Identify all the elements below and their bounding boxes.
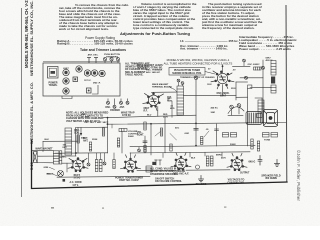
right data table (239, 35, 297, 51)
svg-text:BUS: BUS (168, 101, 173, 103)
2nd IF can label (271, 77, 275, 84)
tone capacitor C21 (271, 133, 278, 138)
wire: detector bus (137, 169, 176, 171)
oscillator coil L2 (65, 128, 72, 155)
svg-text:Power output . . . . . . . .: Power output . . . . . . . . . . 2.25 wa… (239, 47, 291, 51)
chassis ground symbol (198, 176, 203, 182)
svg-text:AVC: AVC (175, 127, 180, 130)
svg-text:TRIMMERS: TRIMMERS (106, 56, 118, 58)
resistor R3 (117, 138, 119, 147)
svg-text:SHOWN IN MANUAL POS.: SHOWN IN MANUAL POS. (172, 72, 202, 75)
svg-text:TERMINAL BOARD: TERMINAL BOARD (152, 85, 172, 88)
svg-text:250M: 250M (92, 139, 97, 141)
trimmer C2 (87, 153, 90, 166)
svg-text:type connected in the output p: type connected in the output plate circu… (133, 26, 194, 30)
loop antenna (wave magnet) (33, 151, 37, 162)
svg-text:WESTINGHOUSE EL. SUPPLY CO., I: WESTINGHOUSE EL. SUPPLY CO., INC. (29, 1, 34, 76)
oscillator padder trimmers below chassis (107, 99, 123, 109)
dial drive line (92, 85, 98, 94)
ext antenna stub (80, 127, 82, 133)
padder trimmer (245, 76, 248, 79)
svg-text:8MFD: 8MFD (216, 155, 222, 157)
svg-text:2ND I.F.: 2ND I.F. (93, 82, 101, 84)
resistor R6 (113, 160, 115, 169)
svg-text:PART NO. V-8237: PART NO. V-8237 (119, 179, 139, 182)
left page rule (21, 8, 23, 197)
loudspeaker (264, 110, 278, 127)
wire: b+ vertical right (262, 60, 264, 123)
svg-text:TABLE ABOVE.: TABLE ABOVE. (125, 74, 144, 77)
2nd if trimmer screws (228, 104, 244, 116)
svg-text:©John F. Rider, Publisher: ©John F. Rider, Publisher (296, 150, 301, 202)
svg-text:A.C. CORD: A.C. CORD (70, 181, 82, 184)
tube socket 6SK7 IF (top view) (84, 70, 90, 76)
wire: gang frame vertical (77, 127, 79, 152)
wire: loop lead upper (32, 150, 54, 152)
wire: vertical screen (235, 82, 237, 100)
wire: audio feed vertical (164, 118, 166, 153)
wire: avc bus (130, 146, 255, 147)
svg-text:BLK: BLK (191, 158, 196, 160)
svg-text:BLK: BLK (45, 139, 50, 141)
svg-text:ON VOLUME CONTROL: ON VOLUME CONTROL (155, 180, 182, 183)
2nd IF transformer T3 primary (271, 61, 276, 76)
svg-text:Adjustments for Push-Button Tu: Adjustments for Push-Button Tuning (120, 31, 190, 36)
svg-text:OSC. 600KC: OSC. 600KC (248, 64, 261, 66)
wire: converter plate drop (222, 85, 224, 96)
svg-text:WAVE MAGNET: WAVE MAGNET (35, 147, 53, 150)
tube socket 6SA7 (top view) (76, 66, 82, 72)
resistor R4 (144, 122, 146, 130)
coupling box C13 (223, 133, 229, 138)
wire: vertical diode load (216, 124, 218, 146)
tube socket 6SK7 RF (top view) (63, 69, 69, 75)
resistor R14 (251, 139, 253, 149)
svg-text:.0001: .0001 (184, 133, 190, 135)
svg-text:5Y3-G: 5Y3-G (74, 178, 81, 180)
wire: loop to gang (43, 140, 78, 142)
junction lamp (63, 179, 66, 182)
tube socket 5Y3 (top view) (63, 78, 69, 84)
wire: cathode bus (57, 175, 150, 178)
wire: screen feed (236, 96, 248, 98)
antenna coil L1 primary (53, 151, 59, 164)
wire: vertical b+ riser (247, 89, 249, 147)
svg-text:ANT.: ANT. (119, 106, 124, 109)
svg-text:I.F. AMP: I.F. AMP (81, 116, 90, 119)
wire: vertical at gang (107, 118, 109, 153)
svg-text:250V: 250V (163, 117, 168, 119)
svg-text:PILOT: PILOT (47, 174, 54, 176)
trimmer C3 (103, 153, 106, 165)
resistor R15 (257, 141, 259, 151)
capacitor C18 (258, 156, 262, 166)
wire: terminal drop (171, 101, 173, 117)
small stub (111, 124, 113, 128)
stub wires on cathode bus (163, 152, 222, 157)
note text right of chassis (125, 63, 150, 77)
svg-text:TONE: TONE (264, 140, 271, 142)
svg-text:6K6-G: 6K6-G (249, 162, 256, 164)
wave trap trimmer stems (88, 58, 90, 64)
svg-text:BLU: BLU (147, 115, 152, 117)
svg-text:MFD: MFD (170, 108, 175, 110)
svg-text:ANT.: ANT. (83, 140, 88, 143)
svg-text:WAVE MAGNET: WAVE MAGNET (152, 83, 169, 86)
capacitor C9 (143, 141, 147, 143)
electrolytic C15 (206, 156, 209, 166)
converter tube V1 6SA7 (211, 71, 234, 89)
wire: plate feed (240, 77, 263, 79)
svg-text:ANT. OSC.: ANT. OSC. (88, 54, 99, 57)
wire: output bus (186, 169, 230, 171)
power transformer T1 primary (95, 160, 98, 172)
chassis bottom notch (62, 96, 72, 99)
svg-text:100V: 100V (207, 84, 212, 86)
svg-text:Rating B . . . . . . . . . .: Rating B . . . . . . . . . . . . . . 105… (57, 42, 133, 46)
push-button switch label box (169, 68, 205, 76)
note text block (66, 112, 108, 123)
svg-text:50M: 50M (81, 138, 85, 140)
resistor R12 (170, 144, 172, 151)
wave magnet note (137, 64, 163, 70)
svg-text:500M: 500M (128, 136, 134, 138)
power transformer T1 secondary (99, 160, 102, 172)
svg-text:work or for circuit alignment: work or for circuit alignment tests. (58, 27, 109, 31)
if output coil L4 (258, 100, 264, 112)
resistor R8 (horizontal) (254, 67, 262, 70)
svg-text:AVC: AVC (168, 97, 173, 100)
wire: heater top (233, 65, 251, 67)
output transformer T4 (246, 112, 262, 125)
electrolytic can (top view) (63, 88, 69, 94)
wire: lower left bus (38, 155, 76, 157)
svg-text:450 OHMS: 450 OHMS (265, 177, 277, 180)
svg-text:OSC.: OSC. (105, 107, 111, 109)
terminal box (248, 85, 252, 89)
capacitor C14 (215, 129, 219, 131)
speaker plug pins (155, 160, 162, 165)
svg-text:Ant. trimmer - - - - - - - -: Ant. trimmer - - - - - - - - - 1400 kc. (180, 46, 228, 50)
antenna trimmer screws (103, 58, 119, 63)
trimmer C22 (138, 147, 141, 152)
resistor R7 (77, 135, 79, 143)
svg-text:R.F.: R.F. (144, 110, 148, 112)
svg-text:the frequency of the desired s: the frequency of the desired station. (202, 26, 255, 30)
wire: cathode return bus (130, 152, 250, 153)
det avc tube V3 6SQ7 (171, 153, 191, 171)
wire: vertical if plate (195, 80, 197, 147)
svg-text:30M: 30M (211, 112, 215, 114)
wire: ant coil bus (55, 152, 108, 154)
top text column 1 (58, 3, 129, 31)
power transformer box (top view) (48, 67, 59, 79)
tube socket 6SQ7 (top view) (91, 70, 97, 76)
chassis outline (43, 63, 120, 96)
svg-text:I.F. —————————————— 455 kc.: I.F. —————————————— 455 kc. (180, 39, 239, 43)
coupling box R13 (231, 133, 237, 138)
stray page marks (51, 207, 226, 209)
values note block (150, 168, 185, 176)
schematic frame left and bottom (32, 140, 288, 189)
svg-text:PADDER: PADDER (110, 109, 120, 112)
capacitor C12 (257, 114, 263, 118)
bottom tube V5 5Y3 rect (68, 157, 88, 172)
wire: rf plate bus (103, 115, 196, 118)
svg-text:500M: 500M (230, 144, 236, 146)
wire: antenna top bus (76, 127, 108, 156)
rf amp tube V6 6SK7 (143, 93, 164, 111)
capacitor C8 (194, 128, 198, 130)
osc trimmer C6 (194, 76, 197, 79)
svg-text:117 V.: 117 V. (72, 185, 79, 187)
converter pin labels (207, 69, 236, 91)
svg-text:6SA7: 6SA7 (220, 95, 227, 98)
output tube V4 6K6 (227, 153, 247, 171)
ground symbol right (274, 160, 279, 167)
svg-text:OSC. SECT.: OSC. SECT. (84, 122, 97, 124)
svg-text:WESTINGHOUSE EL. & MFG. CO.: WESTINGHOUSE EL. & MFG. CO. (29, 82, 34, 144)
antenna coil L1 secondary (59, 151, 61, 164)
svg-text:OUTPUT: OUTPUT (240, 173, 250, 175)
electrolytic C16 (210, 156, 213, 166)
resistor R10 (201, 137, 203, 145)
small can C30 (146, 166, 152, 172)
transformer stubs (97, 153, 131, 160)
if transformer can (top view) (73, 77, 78, 82)
wire: af coupling vertical (144, 136, 146, 153)
svg-text:GRN: GRN (44, 167, 49, 169)
resistor R2 (102, 128, 104, 136)
svg-text:250V: 250V (231, 88, 236, 90)
1st if trimmer screws (177, 79, 184, 86)
svg-text:CONT.: CONT. (137, 135, 144, 137)
osc trimmer C5 (243, 59, 246, 66)
svg-text:CHASSIS GND.: CHASSIS GND. (227, 181, 245, 184)
right page rule (285, 5, 288, 182)
svg-text:6SK7: 6SK7 (63, 68, 69, 70)
svg-text:COIL: COIL (74, 133, 80, 135)
resistor R11 (144, 146, 146, 153)
svg-text:1720 KC: 1720 KC (122, 115, 131, 117)
wire: rect filament (62, 162, 73, 164)
wire: converter heater stub (222, 65, 224, 74)
wire: loop bottom lead (37, 162, 53, 164)
svg-text:CHASSIS: CHASSIS (196, 183, 207, 186)
svg-text:1ST I.F.: 1ST I.F. (84, 80, 92, 82)
1st IF transformer T2 (177, 86, 184, 115)
2nd IF transformer T3 secondary (271, 85, 276, 93)
wire: long B+ bus (108, 123, 287, 125)
svg-text:ADJ. 1400 KC: ADJ. 1400 KC (146, 71, 161, 74)
svg-text:450V: 450V (221, 157, 226, 160)
wire: converter screen corner (236, 81, 248, 83)
padder capacitor C4 (119, 129, 127, 132)
svg-text:ALL TUBE HEATERS CONNECTED FOR: ALL TUBE HEATERS CONNECTED FOR 6.3 VOLTS (164, 62, 233, 66)
svg-text:455 KC: 455 KC (211, 107, 219, 110)
svg-text:WAVE MAGNET LEADS: WAVE MAGNET LEADS (137, 64, 163, 67)
top text column 2 (133, 2, 197, 30)
svg-text:DET.-AVC-A.F.: DET.-AVC-A.F. (173, 173, 189, 176)
svg-text:455 KC: 455 KC (266, 59, 274, 62)
screw trimmer (262, 66, 265, 69)
top text column 3 (201, 2, 263, 30)
dial lamp (58, 171, 64, 177)
resistor R1 (89, 142, 91, 151)
wire: vertical at volume (150, 124, 152, 155)
if amp tube V2 6SK7 (121, 155, 141, 173)
middle alignment table (180, 39, 239, 50)
wire: volume control vertical (121, 131, 123, 153)
small circle junction (196, 165, 200, 169)
wire: if can feed (250, 86, 271, 88)
tone capacitor C20 (263, 133, 270, 138)
part tag (152, 162, 156, 165)
output transformer (top view) (87, 88, 92, 93)
wire: if grid run (184, 94, 237, 96)
junction dots (75, 65, 264, 154)
on-off switch label (155, 178, 182, 184)
svg-text:TRANS.: TRANS. (49, 84, 58, 87)
misc value labels (163, 114, 226, 160)
svg-text:SEC.: SEC. (62, 157, 67, 159)
tube socket 6K6 (top view) (99, 70, 105, 76)
resistor R5 (160, 128, 162, 136)
leader lines (155, 131, 209, 140)
rf tube wires (152, 91, 177, 93)
wire: if can drop (261, 98, 263, 112)
svg-text:Tube and Trimmer Locations: Tube and Trimmer Locations (80, 48, 126, 52)
